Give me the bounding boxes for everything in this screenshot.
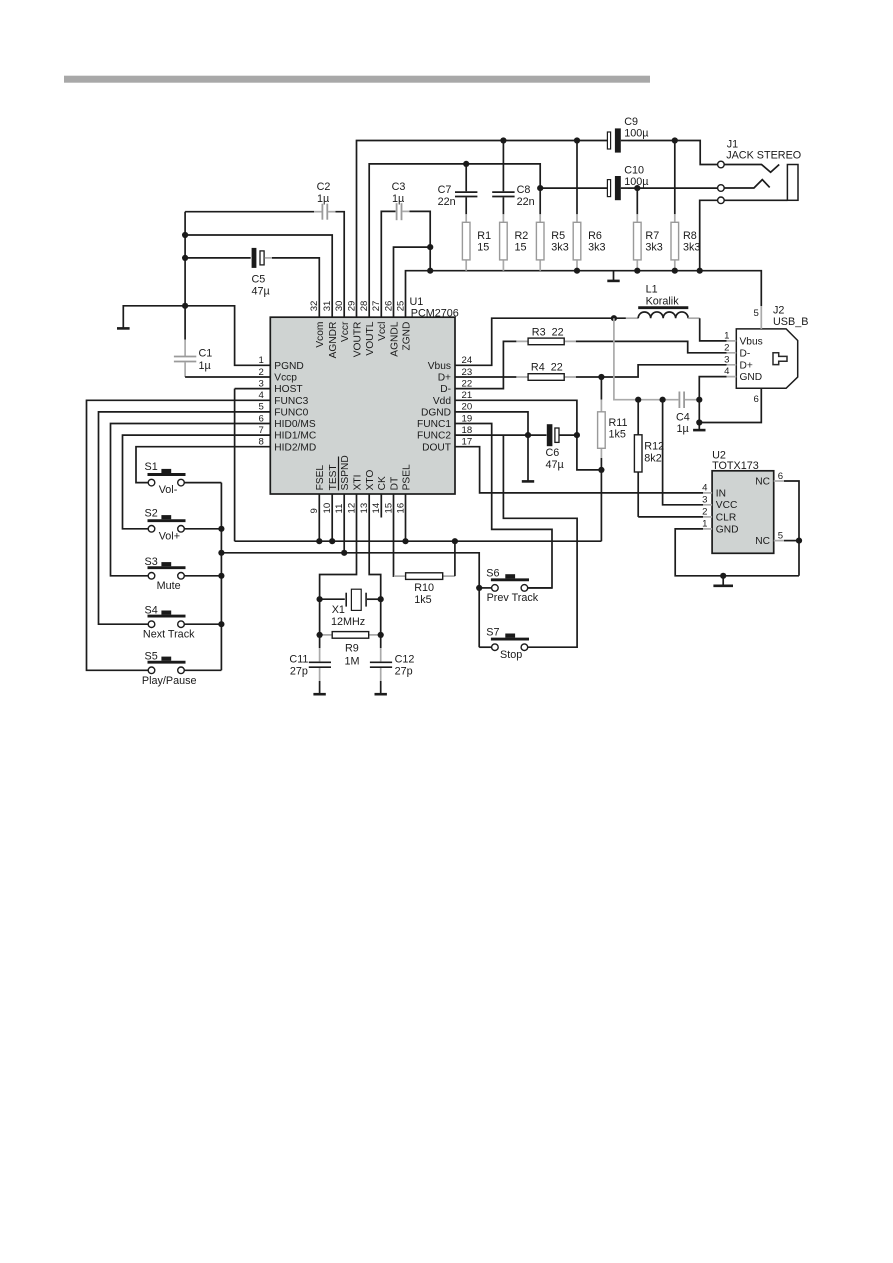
svg-text:ZGND: ZGND bbox=[401, 322, 412, 351]
junction chain / S3 bbox=[218, 573, 224, 579]
wire FUNC3 net: U1 pin 4 to S5 bbox=[87, 400, 271, 670]
svg-text:15: 15 bbox=[515, 241, 527, 253]
svg-text:Koralik: Koralik bbox=[646, 295, 680, 307]
wire S2 right to chain bbox=[184, 528, 221, 530]
U1 pin 4 FUNC3 bbox=[258, 390, 308, 407]
U1 pin 22 D- bbox=[440, 378, 472, 395]
svg-text:GND: GND bbox=[740, 372, 763, 383]
svg-text:X1: X1 bbox=[332, 604, 345, 616]
junction ZGND bus / R7 bbox=[634, 268, 640, 274]
svg-text:HID0/MS: HID0/MS bbox=[274, 419, 316, 430]
svg-text:R1: R1 bbox=[477, 230, 491, 242]
U1 pin 23 D+ bbox=[438, 367, 472, 384]
wire jack sleeve to ZGND bus bbox=[700, 200, 718, 270]
svg-text:FUNC2: FUNC2 bbox=[417, 431, 451, 442]
junction bus1 / pin 10 bbox=[329, 538, 335, 544]
junction C3 branch / ZGND bus bbox=[427, 268, 433, 274]
wire S3 right to chain bbox=[184, 575, 221, 577]
wire S1 right to chain bbox=[184, 482, 221, 484]
wire HID2/MD net: U1 pin 8 to S1 bbox=[136, 447, 270, 483]
wire VOUTL after C10 to jack ring contact bbox=[628, 187, 718, 189]
svg-text:S7: S7 bbox=[486, 627, 499, 639]
svg-text:27p: 27p bbox=[395, 665, 413, 677]
U2 pin 2 CLR bbox=[702, 507, 736, 524]
svg-text:XTI: XTI bbox=[352, 475, 363, 491]
svg-text:Vbus: Vbus bbox=[740, 336, 763, 347]
junction ZGND bus / jack sleeve drop bbox=[697, 268, 703, 274]
svg-text:C11: C11 bbox=[289, 654, 308, 666]
capacitor C2 1u bbox=[185, 181, 335, 220]
svg-text:S5: S5 bbox=[145, 650, 158, 662]
switch S7 Stop bbox=[486, 627, 529, 661]
U1 pin 17 DOUT bbox=[422, 437, 472, 454]
wire Vccr net: C2 to U1 pin 30 bbox=[336, 212, 345, 318]
svg-text:R6: R6 bbox=[588, 230, 602, 242]
crystal X1 12MHz bbox=[320, 589, 381, 628]
svg-text:4: 4 bbox=[724, 366, 730, 377]
wire Vdd net: U1 pin 21 right and down to C6 bbox=[455, 400, 577, 435]
svg-text:JACK STEREO: JACK STEREO bbox=[726, 150, 801, 162]
junction bus1 / R10 bbox=[452, 538, 458, 544]
svg-text:DOUT: DOUT bbox=[422, 442, 451, 453]
svg-text:AGNDR: AGNDR bbox=[328, 322, 339, 359]
resistor R10 1k5 bbox=[394, 573, 455, 606]
svg-text:R4 22: R4 22 bbox=[531, 361, 563, 373]
svg-text:R5: R5 bbox=[551, 230, 565, 242]
U1 pin 27 Vccl bbox=[371, 301, 388, 341]
svg-text:22n: 22n bbox=[438, 196, 456, 208]
switch S3 Mute bbox=[145, 556, 186, 592]
svg-text:C1: C1 bbox=[199, 348, 213, 360]
junction X1 right / XTO column bbox=[378, 596, 384, 602]
resistor R3 22 bbox=[516, 326, 576, 344]
wire S4 right to chain bbox=[184, 623, 221, 625]
svg-text:4: 4 bbox=[702, 483, 708, 494]
resistor R9 1M bbox=[320, 632, 381, 668]
wire left vertical net (C2/AGNDR/C5/ground/C1/PGND common) bbox=[184, 212, 186, 306]
svg-text:Vcom: Vcom bbox=[315, 322, 326, 348]
svg-text:FUNC1: FUNC1 bbox=[417, 419, 451, 430]
svg-text:Vccr: Vccr bbox=[340, 321, 351, 342]
junction chain / S4 bbox=[218, 621, 224, 627]
U1 pin 10 TEST bbox=[322, 464, 339, 513]
capacitor C4 1u bbox=[676, 392, 690, 436]
U1 pin 32 Vcom bbox=[309, 301, 326, 348]
wire HID0/MS net: U1 pin 6 to S3 bbox=[111, 424, 271, 576]
U1 pin 29 VOUTR bbox=[346, 301, 363, 358]
svg-text:5: 5 bbox=[753, 308, 758, 319]
svg-text:1k5: 1k5 bbox=[414, 594, 431, 606]
svg-text:DT: DT bbox=[389, 477, 400, 491]
wire Vbus: L1 to USB pin 1 bbox=[700, 318, 727, 341]
junction bus2 drop / S6 bbox=[476, 585, 482, 591]
svg-text:VCC: VCC bbox=[716, 500, 738, 511]
svg-text:8k2: 8k2 bbox=[644, 452, 661, 464]
ground (left of C1) bbox=[117, 306, 185, 329]
wire D- net: R3 to USB pin 2 bbox=[576, 341, 727, 352]
wire S5 right to chain bbox=[184, 669, 221, 671]
svg-text:D+: D+ bbox=[438, 373, 451, 384]
junction C3 / AGNDL bbox=[427, 244, 433, 250]
svg-text:C12: C12 bbox=[395, 654, 415, 666]
capacitor C11 27p bbox=[289, 648, 331, 693]
connector J1 JACK STEREO bbox=[718, 139, 802, 204]
svg-text:D-: D- bbox=[740, 348, 751, 359]
svg-text:D+: D+ bbox=[740, 360, 753, 371]
resistor R7 3k3 bbox=[634, 188, 663, 271]
svg-text:6: 6 bbox=[753, 394, 758, 405]
ground (below ZGND bus) bbox=[607, 271, 619, 281]
svg-text:R7: R7 bbox=[645, 230, 659, 242]
svg-text:1M: 1M bbox=[345, 656, 360, 668]
inductor L1 Koralik bbox=[626, 284, 700, 319]
wire AGNDR net: left net to U1 pin 31 bbox=[185, 235, 332, 317]
svg-text:IN: IN bbox=[716, 488, 726, 499]
junction U2 GND row / ground bbox=[720, 573, 726, 579]
resistor R5 3k3 bbox=[536, 188, 568, 271]
resistor R6 3k3 bbox=[573, 141, 605, 271]
resistor R8 3k3 bbox=[671, 141, 700, 271]
ground (below C6, DGND) bbox=[522, 435, 534, 481]
svg-text:CK: CK bbox=[377, 476, 388, 490]
wire VOUTR net: U1 pin 29 up and right to C9 bbox=[357, 141, 608, 318]
switch S2 Vol+ bbox=[145, 507, 186, 542]
wire U2 GND loop bbox=[675, 529, 799, 576]
U2 pin 1 GND bbox=[702, 519, 738, 536]
wire USB pin 6 to GND junction bbox=[699, 388, 761, 422]
svg-text:47µ: 47µ bbox=[546, 459, 564, 471]
U1 pin 9 FSEL bbox=[309, 465, 326, 514]
U1 pin 3 HOST bbox=[258, 378, 302, 395]
wire PGND net: left net to U1 pin 1 bbox=[185, 306, 270, 366]
svg-text:S3: S3 bbox=[145, 556, 158, 568]
U1 pin 13 XTO bbox=[359, 470, 376, 514]
svg-text:Mute: Mute bbox=[157, 580, 181, 592]
capacitor C10 100u (polarized) bbox=[607, 165, 648, 201]
svg-text:AGNDL: AGNDL bbox=[389, 321, 400, 356]
svg-text:Vccp: Vccp bbox=[274, 373, 297, 384]
svg-text:C3: C3 bbox=[392, 181, 406, 193]
junction C4 right / USB GND bbox=[696, 397, 702, 403]
svg-text:22n: 22n bbox=[517, 196, 535, 208]
svg-text:C4: C4 bbox=[676, 411, 690, 423]
ground (below C4, USB GND) bbox=[693, 429, 705, 432]
wire R12 bottom to U2 CLR bbox=[638, 516, 703, 518]
wire XTI net: U1 pin 12 to crystal left column bbox=[320, 494, 357, 648]
wire FUNC1 net: U1 pin 19 to S6 bbox=[455, 424, 552, 588]
svg-text:U1: U1 bbox=[410, 296, 424, 308]
U1 pin 19 FUNC1 bbox=[417, 413, 472, 430]
wire Vccl/C3 right to AGNDL and ZGND bus bbox=[410, 211, 431, 270]
junction ZGND bus / R8 bbox=[672, 268, 678, 274]
wire Vccp net: C1 to U1 pin 2 bbox=[185, 376, 270, 378]
wire switch common chain vertical bbox=[220, 483, 222, 671]
capacitor C1 1u bbox=[174, 306, 212, 377]
svg-text:TOTX173: TOTX173 bbox=[712, 460, 759, 472]
svg-text:R10: R10 bbox=[414, 582, 434, 594]
svg-text:2: 2 bbox=[724, 342, 729, 353]
wire U2 NC5 to vertical bbox=[784, 540, 799, 542]
wire U1 pin 10 TEST to bus1 bbox=[331, 494, 333, 541]
svg-text:NC: NC bbox=[755, 536, 770, 547]
svg-text:C6: C6 bbox=[546, 447, 560, 459]
U1 pin 30 Vccr bbox=[334, 301, 351, 342]
svg-text:6: 6 bbox=[778, 471, 783, 482]
junction C6 left / DGND bbox=[525, 432, 531, 438]
svg-text:R2: R2 bbox=[515, 230, 529, 242]
U1 pin 6 HID0/MS bbox=[258, 413, 315, 430]
wire R11 bottom to Vdd node bbox=[600, 458, 602, 470]
resistor R1 15 bbox=[462, 214, 491, 270]
junction VOUTR / R8 bbox=[672, 137, 678, 143]
svg-text:L1: L1 bbox=[646, 284, 658, 296]
capacitor C5 47u (polarized) bbox=[185, 248, 272, 298]
capacitor C6 47u (polarized) bbox=[546, 424, 577, 471]
wire C4 row net (Vbus decoupling, gray) bbox=[614, 318, 699, 400]
svg-text:C9: C9 bbox=[624, 116, 638, 128]
wire U1 pin 9 FSEL to bus1 bbox=[318, 494, 320, 541]
svg-text:VOUTR: VOUTR bbox=[352, 322, 363, 358]
U1 pin 18 FUNC2 bbox=[417, 425, 472, 442]
svg-text:R12: R12 bbox=[644, 441, 664, 453]
svg-text:R8: R8 bbox=[683, 230, 697, 242]
U1 pin 2 Vccp bbox=[258, 367, 297, 384]
junction D+ / R11 bbox=[598, 374, 604, 380]
wire U2 VCC branch bbox=[663, 400, 703, 505]
U1 pin 20 DGND bbox=[421, 402, 472, 419]
U1 pin 31 AGNDR bbox=[322, 301, 339, 359]
wire VOUTR after C9 to jack tip bbox=[628, 141, 718, 165]
wire USB pin 4 GND down to ground bbox=[699, 377, 726, 430]
resistor R4 22 bbox=[516, 361, 576, 380]
wire U1 pin 11 SSPND to bus2 bbox=[343, 494, 345, 553]
svg-text:Prev Track: Prev Track bbox=[487, 592, 539, 604]
svg-text:1: 1 bbox=[702, 519, 707, 530]
wire D+ net: R4 to USB pin 3 bbox=[576, 365, 727, 377]
junction C4 row / U2 VCC branch bbox=[660, 397, 666, 403]
svg-text:3k3: 3k3 bbox=[551, 241, 568, 253]
svg-text:1µ: 1µ bbox=[317, 193, 329, 205]
svg-text:1µ: 1µ bbox=[677, 423, 689, 435]
ic U2 TOTX173 body bbox=[712, 450, 774, 554]
wire XTO net: U1 pin 13 to crystal right column bbox=[369, 494, 381, 648]
junction Vbus / C4 branch bbox=[611, 315, 617, 321]
capacitor C12 27p bbox=[370, 648, 415, 693]
U2 pin 4 IN bbox=[702, 483, 726, 500]
svg-text:FUNC0: FUNC0 bbox=[274, 408, 308, 419]
resistor R11 1k5 bbox=[598, 377, 628, 458]
svg-text:Vol-: Vol- bbox=[159, 484, 178, 496]
connector J2 USB_B bbox=[724, 304, 808, 405]
svg-text:S6: S6 bbox=[486, 567, 499, 579]
svg-text:Vol+: Vol+ bbox=[159, 530, 180, 542]
wire FUNC2 net: U1 pin 18 to S7 bbox=[503, 435, 577, 647]
junction X1 left / XTI column bbox=[317, 596, 323, 602]
wire D+ net: U1 pin 23 to R4 bbox=[455, 376, 516, 378]
wire control bus2: S-chain to S6/S7 drop bbox=[221, 553, 479, 647]
svg-text:1k5: 1k5 bbox=[609, 429, 626, 441]
U1 pin 28 VOUTL bbox=[359, 301, 376, 356]
svg-text:Play/Pause: Play/Pause bbox=[142, 675, 197, 687]
svg-text:HOST: HOST bbox=[274, 384, 302, 395]
ground (below U2) bbox=[713, 576, 733, 586]
wire U1 pin 14 CK stub (n.c.) bbox=[380, 494, 382, 518]
junction R11 / Vdd row bbox=[598, 467, 604, 473]
svg-text:TEST: TEST bbox=[328, 464, 339, 490]
junction left net / ground and PGND bbox=[182, 303, 188, 309]
ic U1 PCM2706 body bbox=[270, 296, 459, 494]
resistor R2 15 bbox=[500, 214, 529, 270]
svg-text:HID1/MC: HID1/MC bbox=[274, 431, 316, 442]
U1 pin 14 CK bbox=[371, 476, 388, 513]
wire D- net: U1 pin 22 up to R3 bbox=[455, 341, 516, 388]
svg-text:3: 3 bbox=[724, 354, 729, 365]
svg-text:100µ: 100µ bbox=[624, 128, 648, 140]
svg-text:3k3: 3k3 bbox=[588, 241, 605, 253]
svg-text:C7: C7 bbox=[438, 184, 452, 196]
svg-text:NC: NC bbox=[755, 477, 770, 488]
svg-text:Next Track: Next Track bbox=[143, 628, 195, 640]
svg-text:C5: C5 bbox=[252, 274, 266, 286]
svg-text:3: 3 bbox=[702, 495, 707, 506]
wire HOST stub bbox=[235, 388, 271, 390]
junction bus1 / pin 9 bbox=[316, 538, 322, 544]
svg-text:C8: C8 bbox=[517, 184, 531, 196]
svg-text:2: 2 bbox=[702, 507, 707, 518]
svg-text:12MHz: 12MHz bbox=[331, 616, 365, 628]
switch S5 Play/Pause bbox=[142, 650, 197, 687]
svg-text:R11: R11 bbox=[609, 417, 628, 429]
wire U2 NC6 down to NC5 bbox=[784, 481, 799, 576]
wire AGNDL net: U1 pin 26 bbox=[394, 247, 431, 317]
svg-text:1: 1 bbox=[724, 330, 729, 341]
capacitor C7 22n bbox=[438, 164, 478, 214]
U1 pin 8 HID2/MD bbox=[258, 437, 316, 454]
svg-text:D-: D- bbox=[440, 384, 451, 395]
svg-text:CLR: CLR bbox=[716, 512, 736, 523]
wire DGND net: U1 pin 20 to C6 left bbox=[455, 412, 528, 435]
svg-text:Vbus: Vbus bbox=[428, 361, 451, 372]
U1 pin 5 FUNC0 bbox=[258, 402, 308, 419]
junction left net / C5 bbox=[182, 255, 188, 261]
junction VOUTL / R1-C7 column bbox=[463, 161, 469, 167]
U2 pin 5 NC bbox=[755, 531, 784, 548]
junction VOUTR / R2-C8 column bbox=[500, 137, 506, 143]
svg-text:Vccl: Vccl bbox=[377, 322, 388, 341]
svg-text:3k3: 3k3 bbox=[683, 241, 700, 253]
svg-text:C2: C2 bbox=[317, 181, 331, 193]
svg-text:FSEL: FSEL bbox=[315, 465, 326, 491]
U1 pin 25 ZGND bbox=[395, 301, 412, 351]
wire Vdd net: C6 right to R11 junction and bus1 bbox=[577, 435, 602, 541]
junction C6 right / Vdd bbox=[574, 432, 580, 438]
junction VOUTL / R5 bbox=[537, 185, 543, 191]
U1 pin 16 PSEL bbox=[395, 464, 412, 513]
junction C4 row / R12 bbox=[635, 397, 641, 403]
junction chain / S2 bbox=[218, 526, 224, 532]
svg-text:S2: S2 bbox=[145, 507, 158, 519]
svg-text:27p: 27p bbox=[290, 665, 308, 677]
switch S6 Prev Track bbox=[486, 567, 538, 604]
wire HID1/MC net: U1 pin 7 to S2 bbox=[123, 435, 271, 529]
junction ZGND bus / R6 bbox=[574, 268, 580, 274]
junction bus1 / pin 16 bbox=[402, 538, 408, 544]
wire Vbus net: U1 pin 24 up to L1 row bbox=[455, 318, 626, 365]
U1 pin 11 SSPND (active low) bbox=[334, 455, 351, 513]
wire bus2 drop to S7 left bbox=[479, 646, 491, 648]
wire FUNC2 stub row through C6 tap bbox=[455, 434, 547, 436]
svg-text:J2: J2 bbox=[773, 304, 784, 316]
capacitor C3 1u bbox=[381, 181, 409, 317]
svg-text:PCM2706: PCM2706 bbox=[411, 307, 459, 319]
svg-text:15: 15 bbox=[477, 241, 489, 253]
junction USB pin6 wire / GND vertical bbox=[696, 419, 702, 425]
resistor R12 8k2 bbox=[634, 400, 664, 517]
svg-text:PGND: PGND bbox=[274, 361, 303, 372]
svg-text:5: 5 bbox=[778, 531, 783, 542]
wire R10 right up to bus1 bbox=[454, 541, 456, 576]
svg-text:USB_B: USB_B bbox=[773, 316, 808, 328]
U1 pin 15 DT bbox=[383, 477, 400, 514]
svg-text:XTO: XTO bbox=[365, 470, 376, 491]
svg-text:Stop: Stop bbox=[500, 649, 522, 661]
switch S1 Vol- bbox=[145, 461, 186, 496]
junction bus2 / pin 11 bbox=[341, 550, 347, 556]
junction VOUTR / R6 bbox=[574, 137, 580, 143]
svg-text:3k3: 3k3 bbox=[645, 241, 662, 253]
junction left net / AGNDR bbox=[182, 232, 188, 238]
U1 pin 26 AGNDL bbox=[383, 301, 400, 357]
svg-text:R9: R9 bbox=[345, 643, 359, 655]
U2 pin 3 VCC bbox=[702, 495, 737, 512]
junction bus2 / S-chain bbox=[218, 550, 224, 556]
wire Vcom net: C5 to U1 pin 32 bbox=[272, 258, 319, 317]
wire ZGND bus: U1 pin 25 along resistor bottoms to USB pin 5 bbox=[406, 271, 762, 318]
junction NC5 / NC6 vertical bbox=[796, 538, 802, 544]
wire FUNC0 net: U1 pin 5 to S4 bbox=[99, 412, 271, 624]
junction VOUTL / R7 bbox=[634, 185, 640, 191]
svg-text:VOUTL: VOUTL bbox=[365, 321, 376, 355]
svg-text:PSEL: PSEL bbox=[401, 464, 412, 490]
svg-text:Vdd: Vdd bbox=[433, 396, 451, 407]
U1 pin 21 Vdd bbox=[433, 390, 472, 407]
junction R9 left / XTI column bbox=[317, 632, 323, 638]
wire DOUT net: U1 pin 17 to U2 IN bbox=[455, 447, 703, 493]
ground (below C12) bbox=[375, 693, 387, 696]
wire U1 pin 16 PSEL to bus1 bbox=[405, 494, 407, 541]
wire bus2 drop to S6 left bbox=[479, 587, 491, 589]
wire VOUTL/C10 row to jack ring bbox=[540, 187, 607, 189]
U1 pin 12 XTI bbox=[346, 475, 363, 514]
svg-text:FUNC3: FUNC3 bbox=[274, 396, 308, 407]
wire DT net: U1 pin 15 down to R10 bbox=[393, 494, 395, 576]
svg-text:DGND: DGND bbox=[421, 408, 451, 419]
svg-text:47µ: 47µ bbox=[252, 286, 270, 298]
svg-text:HID2/MD: HID2/MD bbox=[274, 442, 316, 453]
svg-text:SSPND: SSPND bbox=[340, 455, 351, 490]
wire S6 right up to FUNC1 bbox=[528, 587, 552, 589]
svg-text:1µ: 1µ bbox=[199, 360, 211, 372]
svg-text:1µ: 1µ bbox=[392, 193, 404, 205]
U2 pin 6 NC bbox=[755, 471, 784, 488]
U1 pin 7 HID1/MC bbox=[258, 425, 316, 442]
U1 pin 1 PGND bbox=[258, 355, 303, 372]
capacitor C9 100u (polarized) bbox=[607, 116, 648, 153]
svg-text:GND: GND bbox=[716, 524, 739, 535]
wire VOUTL net: U1 pin 28 up and right, down to C10 row bbox=[369, 164, 540, 317]
wire Vdd bus1: HOST to R11 column bbox=[235, 389, 602, 542]
junction R9 right / XTO column bbox=[378, 632, 384, 638]
